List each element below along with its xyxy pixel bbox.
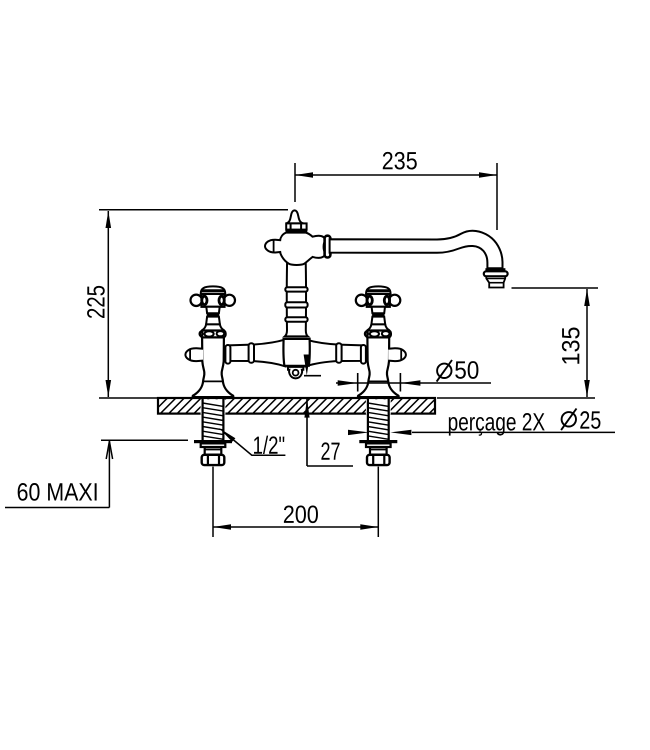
leader 1/2 inch xyxy=(219,428,236,442)
handle stem xyxy=(372,307,385,313)
handle cap xyxy=(201,286,226,294)
centerline below nut (200 dim extension) xyxy=(212,467,214,537)
downtube ring xyxy=(285,317,307,322)
column bridge junction xyxy=(283,339,309,366)
washer xyxy=(359,440,397,443)
bonnet collar xyxy=(366,331,391,338)
locknut collar xyxy=(370,447,387,454)
downtube ring xyxy=(285,287,307,291)
spout nozzle tip xyxy=(486,276,505,287)
dimension 200 (bottom) xyxy=(213,526,378,528)
handle side knobs xyxy=(191,295,202,306)
bridge tube right segment xyxy=(306,339,364,366)
dimension 60 MAXI xyxy=(101,439,188,441)
column left nub xyxy=(265,240,281,253)
bridge tube left segment xyxy=(228,339,286,366)
tube collar at left valve xyxy=(225,345,230,364)
finial dome xyxy=(286,210,303,223)
aerator outlet xyxy=(288,367,303,378)
handle hub xyxy=(367,294,390,307)
bonnet collar xyxy=(200,331,225,338)
valve body at x=213 xyxy=(193,337,234,397)
threaded shank at x=213 xyxy=(201,399,226,414)
dimension diameter 50 xyxy=(336,382,491,384)
spout tube and hook xyxy=(330,231,503,269)
central column downtube xyxy=(285,258,308,336)
spout collar xyxy=(325,236,331,258)
downtube ring xyxy=(285,302,307,307)
valve body at x=378.3 xyxy=(358,337,399,397)
handle hub xyxy=(202,294,225,307)
tube collar mid-left xyxy=(249,343,254,363)
locknut collar xyxy=(205,447,222,454)
threaded shank at x=378.3 xyxy=(366,399,391,414)
dimension 225 (left) xyxy=(99,209,288,211)
dimension 135 (right) xyxy=(512,287,599,289)
dimension percage 2X diameter 25 xyxy=(348,430,369,435)
column body with spout attachment molding xyxy=(279,233,325,265)
handle skirt xyxy=(367,324,390,330)
tube collar mid-right xyxy=(336,343,341,363)
dimension 27 xyxy=(304,375,321,377)
tube collar at right valve xyxy=(361,345,366,364)
handle side knobs xyxy=(356,295,367,306)
finial base ring xyxy=(286,230,308,233)
hex nut xyxy=(202,455,225,465)
hex nut xyxy=(367,455,390,465)
finial hex collar xyxy=(286,223,306,229)
valve side nub xyxy=(388,348,406,361)
handle stem xyxy=(206,307,219,313)
washer xyxy=(194,440,232,443)
valve side nub xyxy=(185,348,203,361)
spout nozzle band xyxy=(485,268,505,271)
centerline below nut (200 dim extension) xyxy=(377,467,379,537)
handle skirt xyxy=(202,324,225,330)
dimension 235 (top) xyxy=(294,163,296,202)
handle cap xyxy=(366,286,391,294)
